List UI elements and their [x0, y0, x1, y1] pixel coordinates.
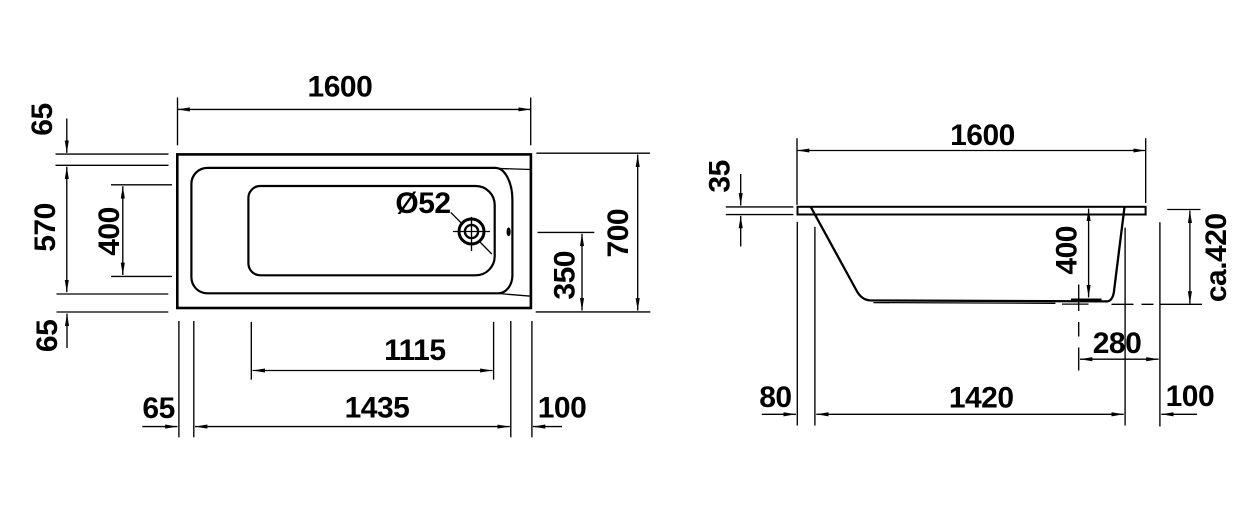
plan dim 400: dimension line	[122, 186, 124, 275]
side dim 1420: dimension line	[816, 413, 1123, 415]
svg-text:1115: 1115	[384, 334, 445, 367]
svg-text:400: 400	[1050, 226, 1083, 275]
side dim 1600: right extension line	[1145, 138, 1147, 203]
svg-text:1420: 1420	[949, 381, 1014, 414]
side view: drain centerline dash-dot	[1078, 285, 1080, 371]
side view: floor reference dash-dot line	[1112, 303, 1203, 305]
plan view: drain inner circle	[465, 225, 478, 238]
side dim 280: right extension line	[1159, 222, 1161, 426]
plan dim 65 top: arrow	[66, 119, 68, 153]
svg-text:100: 100	[538, 392, 587, 425]
svg-text:280: 280	[1093, 327, 1142, 360]
plan bottom: extension line rim right	[510, 321, 512, 437]
side dim 280: dimension line	[1080, 358, 1159, 360]
side dim ca.420: dimension line	[1189, 211, 1191, 304]
side dim 1600: left extension line	[796, 138, 798, 205]
plan view: tub outer outline	[177, 154, 531, 308]
plan bottom: extension line tub left	[178, 321, 180, 437]
plan dim 1435: dimension line	[195, 426, 510, 428]
svg-text:1435: 1435	[345, 392, 410, 425]
plan view: drain crosshair horizontal	[453, 231, 490, 233]
side view: floor lower line	[873, 302, 1055, 305]
plan right: extension line drain center	[538, 231, 595, 233]
plan view: deck edge line bottom-right	[499, 294, 532, 297]
plan bottom: extension line tub right	[531, 321, 533, 437]
plan dim 1600: dimension line	[178, 108, 531, 110]
plan left: extension line tub top	[56, 153, 169, 155]
plan left: extension line well top	[111, 184, 172, 186]
plan right: extension line tub bottom	[536, 311, 651, 313]
plan view: well (tub floor) outline	[248, 186, 494, 275]
plan left: extension line tub bottom	[57, 311, 169, 313]
side view: drain recess lower line	[1062, 303, 1089, 305]
side bottom: extension line wall right	[1124, 228, 1126, 426]
svg-text:400: 400	[93, 207, 126, 256]
plan dim 65 bottom-left: arrow	[142, 426, 177, 428]
plan bottom: extension line rim left	[193, 321, 195, 437]
plan view: drain crosshair vertical	[471, 217, 473, 251]
side dim ca.420: top extension line	[1167, 209, 1200, 211]
side view: left wall and floor and right wall	[811, 207, 1125, 301]
plan view: drain leader line	[451, 212, 492, 254]
plan dim 1600: right extension line	[530, 98, 532, 146]
plan dim 65 bottom: arrow	[66, 314, 68, 348]
side bottom: extension line rim left end	[796, 222, 798, 426]
svg-text:ca.420: ca.420	[1200, 213, 1233, 302]
svg-text:Ø52: Ø52	[395, 187, 450, 220]
side dim 80: arrow	[762, 413, 796, 415]
side dim 400: dimension line	[1088, 209, 1090, 298]
svg-text:35: 35	[704, 160, 737, 192]
svg-text:350: 350	[549, 251, 582, 300]
plan dim 1115: dimension line	[253, 370, 493, 372]
plan bottom: extension line well left	[250, 322, 252, 380]
side dim 35: upper arrow	[740, 174, 742, 206]
side dim 100: arrow	[1161, 413, 1197, 415]
svg-text:65: 65	[142, 392, 174, 425]
plan view: drain outer circle	[459, 219, 484, 244]
side dim 35: extension line rim top	[726, 206, 794, 208]
plan left: extension line rim inner top	[56, 164, 169, 166]
plan view: rim inner outline	[191, 168, 512, 293]
svg-text:65: 65	[31, 320, 64, 352]
svg-text:1600: 1600	[950, 119, 1015, 152]
svg-text:700: 700	[602, 209, 635, 258]
plan view: deck edge line top-right	[494, 168, 531, 169]
side dim 35: lower arrow	[740, 216, 742, 247]
svg-text:65: 65	[26, 103, 59, 135]
svg-text:80: 80	[759, 381, 791, 414]
side dim 1600: dimension line	[797, 150, 1146, 152]
plan right: extension line tub top	[536, 152, 650, 154]
plan bottom: extension line well right	[493, 322, 495, 380]
plan dim 700: dimension line	[637, 155, 639, 311]
side view: drain sump bar	[1071, 298, 1102, 300]
plan view: overflow mark	[507, 227, 511, 236]
plan dim 350: dimension line	[581, 234, 583, 311]
side bottom: extension line wall base left	[814, 227, 816, 426]
svg-text:570: 570	[29, 203, 62, 252]
plan dim 570: dimension line	[66, 167, 68, 293]
svg-text:100: 100	[1166, 380, 1215, 413]
plan left: extension line well bottom	[111, 275, 172, 277]
side view: rim bar	[798, 207, 1146, 215]
plan dim 1600: left extension line	[177, 98, 179, 146]
svg-text:1600: 1600	[308, 71, 373, 104]
side dim 35: extension line rim bottom	[726, 214, 794, 216]
plan dim 100: arrow	[533, 426, 562, 428]
plan left: extension line rim inner bottom	[57, 293, 169, 295]
